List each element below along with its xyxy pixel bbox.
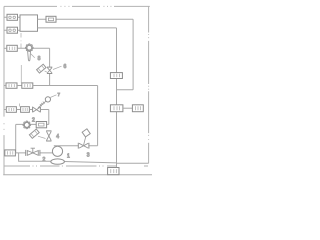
leader to label 8 [31, 54, 35, 58]
wire row5 [15, 152, 52, 154]
box M (controller) [20, 15, 38, 31]
frame border top (dash-dot) [4, 5, 150, 7]
frame border left (dash-dot) [3, 6, 5, 174]
wire row3 vertical drop [48, 110, 50, 125]
valve V7 (bowtie with flanges) [78, 143, 89, 149]
frame border right (dash-dot) [148, 6, 150, 163]
svg-text:1: 1 [67, 154, 70, 160]
valve V7 handle (tilted square) [82, 129, 90, 137]
wire S9a to S9b [123, 107, 132, 109]
row5: box S12 [5, 150, 16, 156]
valve V6 (on vertical x48.8) [46, 131, 51, 141]
box S9b [132, 105, 143, 112]
row3: box S7a [6, 107, 16, 113]
valve V1 (gear circle) [27, 45, 32, 50]
wire vline x97.6 [97, 86, 99, 146]
wire S7a stub [4, 109, 6, 111]
frame border bottom (dash-dot) [4, 165, 148, 167]
wire line A [38, 18, 134, 20]
valve V3 stem [38, 101, 46, 108]
pump P1 [52, 146, 62, 156]
wire S5-S6 [17, 85, 22, 87]
valve V2 (on vertical) [47, 67, 52, 73]
relief device D1 (tilted) [37, 64, 46, 73]
wire row3 to corner [40, 109, 48, 111]
box S6 [22, 83, 33, 88]
box S10 (bottom of vline1) [108, 168, 119, 175]
row4 left vertical [15, 124, 17, 152]
valve V5 (bowtie with flanges and stem) [26, 150, 40, 156]
valve V4 (gear circle) [24, 122, 29, 127]
wire S2 to M [4, 29, 20, 31]
wire row5 return branch [19, 153, 117, 163]
bottom rule [3, 174, 152, 176]
wire S1 to M [4, 16, 20, 18]
wire D1 stub [45, 71, 47, 72]
wire D2 stub [38, 136, 46, 138]
box S2 (left transmitter 2nd) [7, 27, 18, 33]
wire row2 vertical drop x49.6 [49, 48, 51, 85]
leader to label 6 [53, 66, 62, 69]
box S11 [36, 122, 46, 128]
wire S4 stub [4, 47, 7, 49]
valve V1 hanging stem loop [28, 51, 31, 61]
wire row2b [33, 85, 98, 87]
wire line A to node on vline1 [117, 89, 134, 91]
wire S5 stub [4, 85, 6, 87]
box S7b [21, 107, 30, 113]
valve V7 stem [84, 137, 86, 145]
blower E1 (ellipse) [51, 159, 65, 164]
inner dash-dot boundary fragments x~20 [20, 33, 22, 107]
wire vline1 [116, 28, 118, 168]
wire line B [38, 27, 117, 29]
valve V3 handle circle [45, 97, 50, 102]
svg-text:6: 6 [64, 64, 67, 70]
box S9a (on vline1) [110, 105, 123, 112]
wire vline1 bottom jog to right border [117, 162, 149, 164]
svg-text:4: 4 [56, 134, 59, 140]
svg-text:7: 7 [58, 92, 61, 97]
svg-text:2: 2 [43, 157, 46, 163]
box S3 (device on line A) [46, 16, 56, 22]
svg-text:2: 2 [32, 117, 35, 123]
row2b: box S5 [6, 83, 17, 88]
valve V3 (bowtie with flanges) [33, 107, 41, 113]
relief device D2 (tilted) [29, 129, 39, 138]
wire line A vertical drop [132, 19, 134, 90]
wire row2 [17, 47, 49, 49]
leader to label 7 [50, 95, 56, 98]
row4 wire [16, 123, 49, 125]
wire to V3 [29, 109, 32, 111]
wire S7a-S7b [16, 109, 20, 111]
svg-text:3: 3 [87, 153, 90, 159]
box S8 (on vline1) [110, 73, 122, 79]
row2: box S4 [7, 45, 17, 51]
box S1 (left transmitter top) [7, 14, 18, 20]
wire P1 top line [54, 145, 98, 147]
svg-text:8: 8 [38, 56, 41, 62]
